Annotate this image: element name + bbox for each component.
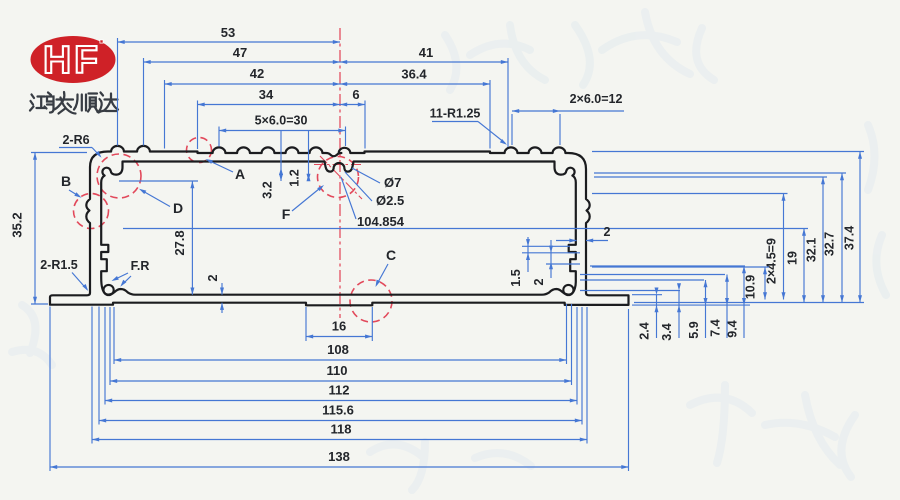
svg-text:B: B — [61, 173, 71, 189]
svg-text:115.6: 115.6 — [322, 403, 354, 418]
svg-text:3.2: 3.2 — [261, 181, 275, 198]
svg-text:2: 2 — [206, 274, 220, 281]
svg-text:19: 19 — [786, 251, 800, 265]
svg-text:35.2: 35.2 — [10, 212, 25, 237]
svg-text:11-R1.25: 11-R1.25 — [430, 107, 481, 121]
svg-text:112: 112 — [329, 383, 350, 398]
svg-text:F.R: F.R — [131, 259, 150, 273]
svg-text:2-R6: 2-R6 — [62, 133, 89, 147]
svg-text:27.8: 27.8 — [172, 230, 187, 255]
svg-text:1.2: 1.2 — [288, 169, 302, 186]
svg-text:5.9: 5.9 — [687, 321, 701, 338]
svg-text:Ø7: Ø7 — [384, 175, 401, 190]
svg-text:53: 53 — [221, 25, 235, 40]
svg-text:47: 47 — [233, 45, 247, 60]
svg-text:34: 34 — [259, 87, 274, 102]
svg-text:138: 138 — [328, 449, 350, 464]
svg-text:32.1: 32.1 — [805, 238, 819, 262]
svg-text:2×4.5=9: 2×4.5=9 — [765, 238, 779, 284]
svg-text:2.4: 2.4 — [638, 322, 652, 339]
svg-text:2-R1.5: 2-R1.5 — [40, 258, 78, 272]
svg-text:37.4: 37.4 — [843, 226, 857, 250]
svg-text:41: 41 — [419, 45, 433, 60]
svg-text:32.7: 32.7 — [823, 232, 837, 256]
svg-text:5×6.0=30: 5×6.0=30 — [255, 114, 308, 128]
svg-text:Ø2.5: Ø2.5 — [376, 193, 404, 208]
svg-text:2×6.0=12: 2×6.0=12 — [570, 92, 623, 106]
svg-text:108: 108 — [327, 342, 349, 357]
svg-text:C: C — [386, 247, 396, 263]
svg-text:118: 118 — [331, 422, 352, 437]
svg-text:A: A — [235, 166, 245, 182]
svg-text:7.4: 7.4 — [709, 319, 723, 336]
svg-text:10.9: 10.9 — [744, 275, 758, 299]
svg-text:2: 2 — [532, 278, 546, 285]
svg-text:42: 42 — [250, 66, 264, 81]
svg-text:16: 16 — [332, 319, 346, 334]
svg-text:6: 6 — [352, 87, 359, 102]
svg-text:F: F — [282, 206, 291, 222]
svg-text:110: 110 — [327, 363, 348, 378]
svg-text:104.854: 104.854 — [357, 214, 405, 229]
svg-text:3.4: 3.4 — [660, 323, 674, 340]
svg-text:9.4: 9.4 — [726, 320, 740, 337]
svg-text:1.5: 1.5 — [509, 269, 523, 286]
svg-text:HF: HF — [43, 39, 101, 82]
svg-text:36.4: 36.4 — [401, 67, 427, 82]
svg-text:D: D — [173, 200, 183, 216]
svg-text:2: 2 — [604, 225, 611, 239]
